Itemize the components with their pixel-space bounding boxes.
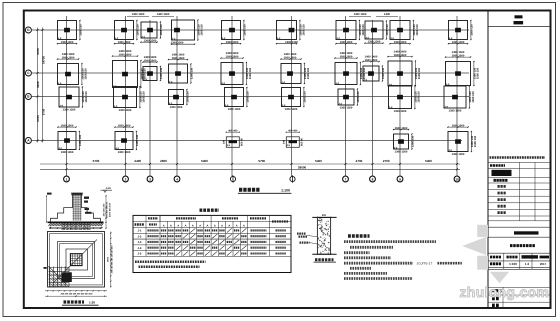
svg-text:1500 1500: 1500 1500 [284,56,297,59]
svg-text:1300 130: 1300 130 [412,135,415,147]
row axis bubble B [25,94,31,100]
svg-text:39000: 39000 [298,165,307,169]
strip footing at (232,142) [222,129,243,147]
svg-text:1300 130: 1300 130 [137,24,140,36]
column axis bubble 4 [174,176,180,182]
svg-text:2600: 2600 [160,159,167,163]
svg-text:1500 1500: 1500 1500 [172,57,185,60]
plan caption 基础平面布置图 1:100 [238,189,292,194]
column pad annotations [297,234,317,244]
svg-text:A: A [243,224,245,227]
svg-text:5700: 5700 [36,115,40,122]
svg-text:1300 130: 1300 130 [382,67,385,79]
svg-text:1300 130: 1300 130 [136,134,139,146]
svg-text:1: 1 [66,177,68,181]
svg-text:1300 1300: 1300 1300 [394,41,407,44]
footing J-3 at (291,97) [282,87,307,111]
svg-text:1500 150: 1500 150 [474,135,477,147]
footing J-4 at (125,97) [114,86,146,112]
footing J-1 at (150,73) [142,56,163,81]
svg-text:1500 1500: 1500 1500 [365,59,378,62]
strip footing at (292,142) [282,129,303,147]
rebar schedule table [133,215,291,272]
svg-text:5700: 5700 [93,159,100,163]
svg-text:1300 1300: 1300 1300 [61,151,74,154]
svg-text:600 60: 600 60 [300,137,303,145]
footing J-3 at (234,97) [225,87,250,111]
svg-text:1300 1300: 1300 1300 [449,109,462,112]
row axis bubble D [25,27,31,33]
svg-text:1500 150: 1500 150 [307,67,310,79]
svg-text:J-1: J-1 [138,229,142,232]
svg-text:1400 1400: 1400 1400 [394,50,407,53]
stepped foundation section detail [46,187,112,229]
svg-text:7: 7 [345,177,347,181]
svg-text:5700: 5700 [36,48,40,55]
footing J-2 at (458,30) [448,20,474,44]
footing J-4 at (69,97) [59,86,88,111]
footing J-2 at (346,30) [335,20,364,44]
svg-text:600 60: 600 60 [240,137,243,145]
svg-text:A: A [185,224,187,227]
svg-text:A: A [207,224,209,227]
title block sign-off table [488,162,551,220]
svg-text:1300 1300: 1300 1300 [61,41,74,44]
svg-text:1:100: 1:100 [281,189,290,193]
svg-text:1400 1400: 1400 1400 [340,52,353,55]
svg-text:1400 1400: 1400 1400 [354,13,367,16]
svg-text:1400 1400: 1400 1400 [157,13,170,16]
svg-text:5700: 5700 [258,159,265,163]
title block note line [490,156,546,159]
svg-text:1300 1300: 1300 1300 [63,108,76,111]
svg-text:2: 2 [125,177,127,181]
svg-text:1500 1500: 1500 1500 [395,127,408,130]
footing J-4 at (455,97) [444,85,475,112]
vertical grid lines [67,16,458,176]
svg-text:1300 130: 1300 130 [357,91,360,103]
svg-text:A: A [192,224,194,227]
svg-text:A: A [163,224,165,227]
svg-text:1400: 1400 [384,13,390,16]
column axis bubble 6 [290,175,295,183]
svg-text:A: A [236,224,238,227]
svg-text:10: 10 [455,177,459,181]
column axis bubble 9 [397,176,403,182]
svg-text:1500 1500: 1500 1500 [119,53,132,56]
column pad caption [314,260,337,262]
svg-text:1500 1500: 1500 1500 [226,55,239,58]
bottom dimension line (total) [40,165,460,170]
svg-text:1300 1300: 1300 1300 [340,41,353,44]
svg-text:1500 1500: 1500 1500 [452,124,465,127]
svg-text:1500 150: 1500 150 [302,24,305,36]
svg-text:300 300 250 20: 300 300 250 20 [106,201,109,218]
svg-text:3: 3 [149,177,151,181]
footing J-2 at (177,30) [171,19,204,44]
svg-text:5400: 5400 [201,159,208,163]
footing J-4 at (400,97) [389,85,421,113]
title block logo [514,15,524,24]
row-1 upper dim texts [127,13,398,16]
svg-text:1500 150: 1500 150 [418,67,421,79]
svg-text:1500 150: 1500 150 [472,91,475,103]
svg-text:A: A [228,224,230,227]
svg-text:2700: 2700 [383,159,390,163]
svg-text:1300 1300: 1300 1300 [118,41,131,44]
svg-text:J-2: J-2 [138,235,142,238]
svg-text:2017: 2017 [540,262,547,266]
svg-text:1500 150: 1500 150 [142,91,145,103]
svg-text:200 200 200 200 200 200 200 20: 200 200 200 200 200 200 200 200 [61,292,94,295]
svg-text:A: A [221,224,223,227]
column axis bubble 10 [454,176,460,182]
watermark logo [462,225,509,283]
svg-text:1500 150: 1500 150 [249,67,252,79]
svg-text:2400: 2400 [134,159,141,163]
svg-text:1300 1300: 1300 1300 [226,41,239,44]
svg-text:240: 240 [222,139,225,144]
svg-text:1500 1500: 1500 1500 [340,55,353,58]
svg-text:1300 1300: 1300 1300 [119,109,132,112]
svg-text:8: 8 [372,177,374,181]
svg-text:5700: 5700 [41,108,45,115]
footing J-2 at (458,141) [447,124,476,156]
svg-text:1400 1400: 1400 1400 [172,53,185,56]
svg-text:1300 130: 1300 130 [471,24,474,36]
svg-text:1300 1300: 1300 1300 [118,151,131,154]
svg-text:1300 130: 1300 130 [187,91,190,103]
footing J-4 at (346,73) [334,52,365,85]
footing J-4 at (232,73) [220,52,251,85]
svg-text:1300 1300: 1300 1300 [395,150,408,153]
footing J-2 at (124,30) [114,20,140,44]
svg-text:1400 1400: 1400 1400 [452,51,465,54]
column axis bubble 3 [147,176,153,182]
svg-text:5400: 5400 [425,159,432,163]
footing J-3 at (178,73) [168,53,194,83]
footing J-2 at (400,30) [389,20,418,44]
svg-text:1300 130: 1300 130 [160,24,163,36]
svg-text:1500 150: 1500 150 [416,24,419,36]
horizontal grid lines [32,30,469,141]
svg-text:-0.05: -0.05 [105,187,111,190]
svg-text:1500 150: 1500 150 [85,91,88,103]
svg-text:1500 150: 1500 150 [200,24,203,36]
svg-text:14700: 14700 [41,56,45,64]
column axis bubble 2 [123,176,129,182]
rebar schedule table title [200,209,220,212]
svg-text:1300 1300: 1300 1300 [170,106,183,109]
title block stamp rows [488,287,551,308]
footing J-1 at (176,97) [169,89,190,109]
bottom dimension line (segments) [40,159,460,165]
svg-text:J-5: J-5 [138,253,142,256]
svg-text:1400 1400: 1400 1400 [62,53,75,56]
svg-text:J-4: J-4 [138,247,142,250]
svg-text:1300 130: 1300 130 [160,67,163,79]
svg-text:1200 600 150: 1200 600 150 [109,202,112,217]
row axis bubble C [25,70,31,76]
footing J-4 at (68,74) [57,53,87,85]
svg-text:1300 130: 1300 130 [80,24,83,36]
footing J-3 at (346,97) [338,88,360,109]
svg-text:1400 1400: 1400 1400 [119,50,132,53]
footing J-2 at (67,30) [57,20,83,44]
svg-text:9: 9 [399,177,401,181]
svg-text:A: A [199,224,201,227]
svg-text:1300 130: 1300 130 [386,24,389,36]
svg-text:3300: 3300 [36,81,40,88]
footing J-2 at (374,30) [364,20,389,43]
svg-text:200 200 200 200 200 200 200: 200 200 200 200 200 200 200 [110,245,113,274]
svg-text:1500 150: 1500 150 [476,67,479,79]
svg-text:250 200 450 900 450 200 250: 250 200 450 900 450 200 250 [61,228,91,231]
svg-text:400: 400 [322,214,327,217]
svg-text:5400: 5400 [315,159,322,163]
svg-text:2700: 2700 [356,159,363,163]
svg-text:J-3: J-3 [138,241,142,244]
svg-text:A: A [170,224,172,227]
svg-text:4: 4 [176,177,178,181]
title block project rows [488,227,551,269]
svg-text:1300 1300: 1300 1300 [228,108,241,111]
svg-text:1500 1500: 1500 1500 [118,124,131,127]
svg-text:JGJ/T6-17: JGJ/T6-17 [417,261,433,265]
svg-text:1300 130: 1300 130 [304,91,307,103]
svg-text:1500 1500: 1500 1500 [144,59,157,62]
footing J-1 at (371,73) [362,55,385,81]
svg-text:1300 130: 1300 130 [244,24,247,36]
svg-text:1500 150: 1500 150 [362,24,365,36]
footing J-4 at (458,73) [445,51,479,86]
svg-text:1500 150: 1500 150 [417,91,420,103]
svg-text:A: A [177,224,179,227]
svg-text:1500 1500: 1500 1500 [452,54,465,57]
svg-text:1300 1300: 1300 1300 [144,40,157,43]
svg-text:1400 1400: 1400 1400 [365,55,378,58]
svg-text:zhulong.com: zhulong.com [460,284,550,300]
svg-text:1300 1300: 1300 1300 [340,106,353,109]
column axis bubble 1 [64,176,70,182]
svg-text:1300 1300: 1300 1300 [285,108,298,111]
svg-text:1:30: 1:30 [89,300,95,304]
footing J-4 at (125,74) [112,50,146,88]
column axis bubble 7 [343,176,349,182]
svg-text:1300 130: 1300 130 [247,91,250,103]
svg-text:1400 1400: 1400 1400 [144,56,157,59]
title block [488,11,551,309]
row axis bubble A [25,138,31,144]
svg-text:1500 150: 1500 150 [84,68,87,80]
notes block 地基基础说明 [344,236,462,279]
plain concrete column pad detail [312,214,336,255]
svg-text:1400 1400: 1400 1400 [284,53,297,56]
svg-text:400 400: 400 400 [228,129,238,132]
svg-text:1300 1300: 1300 1300 [452,41,465,44]
svg-text:1300 1300: 1300 1300 [368,41,381,44]
footing J-1 at (150,30) [140,21,163,42]
svg-text:240: 240 [282,139,285,144]
svg-text:1300 1300: 1300 1300 [452,153,465,156]
svg-text:1 2: 1 2 [525,262,530,266]
footing J-2 at (232,30) [221,20,247,44]
svg-text:300 300 300: 300 300 300 [103,203,106,216]
footing J-4 at (290,73) [280,53,309,84]
column axis bubble 8 [370,176,376,182]
svg-text:1300 130: 1300 130 [79,134,82,146]
footing J-2 at (124,140) [114,124,139,154]
svg-text:1400 1400: 1400 1400 [226,52,239,55]
footing detail caption [44,223,114,297]
svg-text:1:100: 1:100 [509,262,517,266]
svg-text:1300 1300: 1300 1300 [394,110,407,113]
footing J-2 at (291,30) [276,20,305,44]
svg-text:1500 1500: 1500 1500 [394,54,407,57]
svg-text:2600: 2600 [106,256,109,262]
svg-text:1500 1500: 1500 1500 [61,124,74,127]
footing J-2 at (401,141) [393,127,415,154]
svg-text:A: A [214,224,216,227]
svg-text:1300 1300: 1300 1300 [171,42,184,45]
svg-text:1500 1500: 1500 1500 [62,56,75,59]
column axis bubble 5 [230,175,235,183]
svg-text:1300 130: 1300 130 [191,67,194,79]
svg-text:1400 1400: 1400 1400 [132,13,145,16]
footing J-2 at (67,140) [57,124,82,154]
footing J-4 at (400,73) [387,50,420,86]
svg-text:250 200 450 900 450 200 250: 250 200 450 900 450 200 250 [61,223,91,226]
left dimension lines [36,28,45,143]
svg-text:1300 1300: 1300 1300 [285,41,298,44]
svg-text:400 400: 400 400 [288,129,298,132]
